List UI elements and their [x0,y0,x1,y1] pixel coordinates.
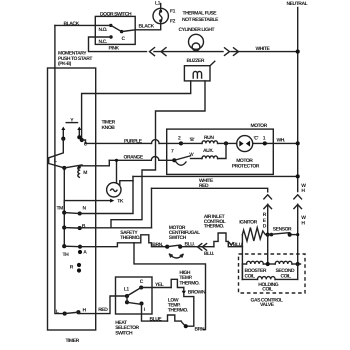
svg-text:PINK: PINK [109,46,120,52]
wire from door C to thermal fuse [122,24,161,32]
svg-text:'A': 'A' [189,152,194,158]
connector chevron down on blu wire [229,243,233,246]
wire high temp down with connector arrow [183,288,185,291]
svg-text:TIMER: TIMER [66,338,80,344]
motor box [167,129,274,174]
wire A line from timer to safety thermo [80,243,141,247]
svg-text:F2: F2 [170,18,176,24]
svg-text:WHITE: WHITE [256,46,271,52]
svg-text:'B': 'B' [190,137,195,143]
svg-text:THERMAL FUSE: THERMAL FUSE [183,10,218,16]
wire buzzer left lead to timer C riser [82,81,191,138]
motor protector circle [237,136,253,152]
wire red down to valve row [267,235,269,264]
svg-text:COIL: COIL [281,274,292,280]
svg-text:THERMO.: THERMO. [120,235,141,241]
motor terminal 7 [172,158,176,162]
svg-text:'C': 'C' [254,135,259,141]
cylinder light bulb [189,34,204,49]
svg-text:RED: RED [199,183,209,189]
timer contact R unused [77,263,81,267]
svg-text:AUX.: AUX. [203,148,214,154]
door switch contact N.O. [109,24,112,27]
connector break RED with chevrons [264,195,272,199]
timer contact TM [62,211,66,215]
svg-text:PURPLE: PURPLE [124,139,143,145]
connector chevrons left-pointing on pink line [150,48,155,56]
door switch contact N.C. [109,35,112,38]
svg-text:THERMO.: THERMO. [204,224,225,230]
thermal fuse element wiggle [159,11,162,20]
momentary contact left arrow [62,129,64,139]
svg-text:SWITCH: SWITCH [115,330,133,336]
junction booster/second [263,263,275,265]
second coil [275,261,292,264]
svg-text:N.C.: N.C. [99,39,108,45]
valve top row wire [242,263,246,265]
door switch blade N.O. to C [111,25,122,31]
wire TK right lead to white riser [120,181,133,185]
svg-text:COIL: COIL [245,274,256,280]
svg-text:SENSOR: SENSOR [273,226,292,232]
svg-text:BLACK: BLACK [139,24,155,30]
timer box [48,68,96,330]
timer motor TK circle [107,183,121,197]
svg-text:BUZZER: BUZZER [187,58,205,64]
wire tap down to lower rail [134,243,206,330]
safety thermostat bump [141,235,167,247]
svg-text:WH.: WH. [277,138,286,144]
wire RED bus line [152,188,268,192]
booster coil [247,261,264,264]
door switch box [95,16,135,44]
timer contact L bottom [63,312,67,316]
timer contact B with blade [78,226,82,230]
wire PINK from N.C. out left and down [89,37,147,52]
wire B line [80,227,152,229]
wire WHITE bus line [133,175,298,177]
motor terminal 2 [179,141,183,145]
svg-text:RED: RED [98,307,108,313]
holding coil row [242,278,257,280]
timer contact M coil [78,167,80,178]
timer contact H bottom with blade [76,310,80,314]
wire PURPLE from timer C to motor 2 [82,140,152,143]
thermostat blade to contact [181,321,186,326]
timer contact B pole [62,226,66,230]
timer common pole riser and L prong [49,139,65,168]
wire wh bus down to valve row [297,235,299,264]
buzzer box [184,66,210,81]
svg-text:L1: L1 [124,286,130,292]
timer contact A stacked [78,245,82,249]
timer contact TH pole [62,244,66,248]
air inlet thermostat bump [214,233,243,247]
svg-text:MOTOR: MOTOR [251,123,268,129]
svg-text:BRN.: BRN. [152,242,163,248]
wire WHITE to neutral bus [231,51,298,53]
svg-text:F1: F1 [170,8,176,14]
thermal fuse F1 circle [153,8,168,23]
ignitor resistor zigzag [242,228,267,241]
svg-text:ORANGE: ORANGE [124,155,144,161]
motor terminal C 1 [253,142,274,144]
svg-text:TH: TH [63,252,70,258]
wire WH to neutral bus [273,142,297,144]
svg-text:SWITCH: SWITCH [169,235,187,241]
svg-text:IGNITOR: IGNITOR [239,219,257,225]
svg-text:BROWN: BROWN [188,290,206,296]
motor centrifugal arc [176,162,186,165]
svg-text:NOT RESETABLE: NOT RESETABLE [182,17,219,23]
wire N line to white riser [80,176,133,213]
sensor contacts and blade [266,233,270,237]
door switch contact C [120,30,123,33]
svg-text:L: L [56,309,59,315]
svg-text:CYLINDER LIGHT: CYLINDER LIGHT [179,27,215,33]
svg-text:L1: L1 [155,1,161,7]
gas control valve dashed box [239,254,306,293]
svg-text:BLACK: BLACK [64,21,80,27]
heat selector switch box [116,277,153,314]
heat selector I contact with blade [139,301,143,305]
svg-text:BRN.: BRN. [195,326,206,332]
buzzer coil [193,71,201,78]
svg-text:PROTECTOR: PROTECTOR [232,163,260,169]
wire YEL from C [141,287,171,289]
wire run to protector junction [181,142,202,144]
wire buzzer right lead down-left-down to B line [111,81,205,228]
svg-text:COIL: COIL [262,287,273,293]
svg-text:L: L [54,158,57,164]
neutral bus vertical [297,8,299,192]
connector break WH with chevrons [294,195,302,199]
wire aux up to junction [218,143,226,158]
TK wave symbol [111,189,117,192]
heat selector L1 pole contacts [125,294,129,298]
wire BLUE from I [142,304,168,322]
thermal fuse top stub L1 [160,4,162,11]
thermal fuse inner terminals [159,10,162,13]
terminal Y bar [66,122,77,124]
svg-text:DOOR SWITCH: DOOR SWITCH [100,11,132,17]
timer contact N with blade [78,211,82,215]
svg-text:THERMO.: THERMO. [168,308,189,314]
wire ORANGE to motor 7 [109,159,151,161]
timer contact L blade [62,166,66,170]
svg-text:TM: TM [57,206,64,212]
wire left main vertical down to timer L contact [55,25,65,313]
motor switch blade 7 to aux [174,156,190,161]
wire BLACK from N.O. to left main wire [55,24,111,26]
wire RED feed riser from B line [151,188,153,228]
centrifugal switch contacts [165,245,169,249]
high temp thermostat bump [171,279,184,287]
wire TM up to TK pointer [64,201,110,213]
low temp thermostat bump [168,315,182,321]
centrifugal mechanical arc [170,254,184,258]
svg-text:KNOB: KNOB [102,125,116,131]
wire ignitor left vertical to valve [241,235,243,280]
svg-text:M: M [83,170,87,176]
svg-text:TK: TK [117,199,124,205]
svg-text:BLUE: BLUE [150,316,163,322]
svg-text:NEUTRAL: NEUTRAL [287,1,308,7]
junction neutral/lamp [296,50,300,54]
svg-text:BLU.: BLU. [204,251,215,257]
wire lamp line [154,51,223,53]
timer contact C [80,138,84,142]
svg-text:(PK-B): (PK-B) [58,61,72,67]
svg-text:VALVE: VALVE [260,302,275,308]
svg-text:N.O.: N.O. [99,27,109,33]
svg-text:THERMO.: THERMO. [179,281,200,287]
connector chevrons on blu wire [198,244,202,251]
connector chevrons right-pointing [225,48,230,56]
wire M to orange [79,160,109,166]
heat selector C contact with blade [139,285,143,289]
momentary contact right arrow [78,129,80,137]
buzzer flap [210,61,215,65]
wire to connector chevrons [180,246,214,248]
svg-text:YEL: YEL [155,282,164,288]
wire RED from timer H to heat selector L1 [78,296,127,314]
valve side verticals [241,264,243,279]
wire TK to orange line riser [116,160,118,183]
TK pointer arrowhead [110,199,114,203]
